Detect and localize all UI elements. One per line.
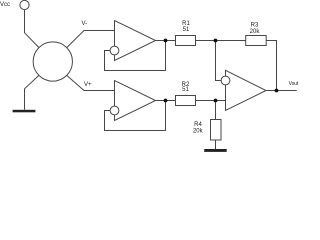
wire U2 output xyxy=(156,100,176,102)
bridge sensor circle xyxy=(33,42,72,81)
svg-text:V+: V+ xyxy=(84,82,92,88)
wire U2 feedback loop xyxy=(105,101,166,131)
resistor R3 body xyxy=(246,36,267,46)
wire node B down to R4 xyxy=(215,101,217,120)
svg-text:R1: R1 xyxy=(182,21,190,27)
svg-text:20k: 20k xyxy=(250,29,261,35)
op-amp U1 inverting bubble xyxy=(110,46,119,55)
wire R3 to output rail xyxy=(266,41,276,91)
resistor R1 body xyxy=(176,36,196,46)
Vcc terminal xyxy=(20,0,29,9)
svg-text:Vout: Vout xyxy=(289,81,299,87)
wire U1 output xyxy=(156,40,176,42)
junction node B xyxy=(214,99,218,103)
wire U1 feedback loop xyxy=(105,41,166,71)
svg-text:R4: R4 xyxy=(194,122,202,128)
junction Vout node xyxy=(275,89,279,93)
svg-text:20k: 20k xyxy=(193,128,204,134)
op-amp U3 inverting bubble xyxy=(221,76,230,85)
ground symbol bar (bridge) xyxy=(13,110,36,113)
resistor R2 body xyxy=(176,96,196,106)
svg-text:R3: R3 xyxy=(251,22,259,28)
wire V+ net: bridge to op-amp U2 input xyxy=(67,75,115,90)
wire U3 output to Vout xyxy=(266,90,297,92)
wire Vcc terminal to bridge xyxy=(25,10,39,48)
wire V- net: bridge to op-amp U1 input xyxy=(67,31,115,48)
op-amp U2 buffer xyxy=(115,81,156,121)
wire R4 to ground xyxy=(215,140,217,149)
resistor R4 body xyxy=(211,120,222,141)
ground symbol bar (R4) xyxy=(204,149,227,152)
op-amp U3 difference stage xyxy=(226,70,267,110)
wire R2 to node B to U3 noninverting input xyxy=(196,100,226,102)
junction node A xyxy=(214,39,218,43)
op-amp U1 buffer xyxy=(115,21,156,61)
svg-text:51: 51 xyxy=(183,27,190,33)
junction U2 output node xyxy=(164,99,168,103)
wire R1 to node A to R3 xyxy=(196,40,246,42)
svg-text:51: 51 xyxy=(182,87,189,93)
wire bridge to ground xyxy=(25,75,39,109)
wire node A to U3 inverting bubble xyxy=(216,41,222,81)
junction U1 output node xyxy=(164,39,168,43)
op-amp U2 inverting bubble xyxy=(110,106,119,115)
svg-text:Vcc: Vcc xyxy=(0,2,10,8)
svg-text:V-: V- xyxy=(82,21,88,27)
